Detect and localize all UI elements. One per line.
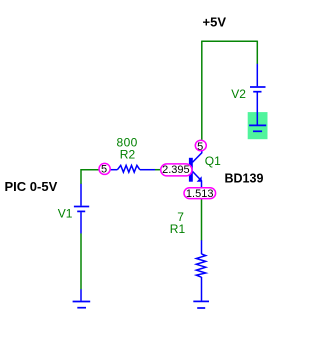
svg-text:BD139: BD139 <box>225 172 264 186</box>
svg-text:Q1: Q1 <box>205 154 221 168</box>
svg-text:V2: V2 <box>231 87 246 101</box>
svg-text:5: 5 <box>197 141 203 153</box>
svg-text:R1: R1 <box>170 222 186 236</box>
svg-text:R2: R2 <box>120 148 136 162</box>
svg-text:2.395: 2.395 <box>162 164 190 176</box>
svg-text:1.513: 1.513 <box>186 188 214 200</box>
svg-text:V1: V1 <box>58 206 73 220</box>
svg-text:5: 5 <box>101 163 107 175</box>
svg-text:PIC 0-5V: PIC 0-5V <box>5 179 58 194</box>
svg-text:+5V: +5V <box>203 14 227 29</box>
